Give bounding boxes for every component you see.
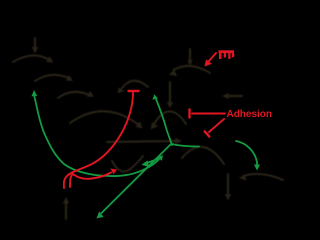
T-bar of R3 [188, 110, 190, 118]
wire A6 arch left-head [122, 81, 148, 88]
arrowhead of R2 [111, 168, 118, 174]
wire A6b arch [154, 111, 187, 125]
arrowhead of A15 [63, 197, 70, 204]
wire A10 vertical down arrow [227, 174, 229, 195]
wire G6 green right arc [236, 141, 257, 166]
arrowhead of G1 [31, 90, 37, 96]
arrowhead of G4 [152, 94, 157, 100]
wire A15 vertical up arrow [65, 203, 67, 220]
wire G3 short green arrow to U-curve [147, 159, 158, 163]
wire A9 swoop [182, 147, 224, 164]
wire A7 horizontal arrow [107, 141, 176, 142]
arrowhead of G3 [142, 160, 150, 167]
wire R4 red inhibition diagonal [209, 119, 224, 132]
arrowhead of G2 [97, 212, 104, 219]
wire A13 arch [174, 66, 211, 73]
arrowhead of A4 [87, 91, 94, 97]
wire R2 red arrow to U-curve [70, 173, 111, 188]
T-bar of R4 [205, 131, 210, 136]
wire G5 green branch right [172, 144, 199, 147]
arrowhead of A6b [151, 122, 159, 129]
svg-text:Adhesion: Adhesion [227, 108, 273, 120]
arrowhead of A14 [239, 174, 247, 181]
wire R3 red inhibition line from Adhesion [192, 113, 225, 115]
wire A16 vertical down arrow mid [169, 82, 171, 104]
wire A3 arch [35, 75, 70, 81]
arrowhead of A11 [222, 93, 229, 100]
wire A1 vertical down arrow shaft [34, 38, 36, 49]
wire A2 arch [13, 55, 50, 62]
wire G1 big green curve [34, 95, 161, 176]
arrowhead of A13 [169, 70, 178, 76]
arrowhead of A7 [175, 138, 182, 144]
wire G4 green main stem [156, 99, 172, 145]
arrowhead of G1 end [157, 155, 163, 161]
wire A8 U-curve [112, 156, 143, 171]
arrowhead of A5 [135, 121, 142, 128]
wire G2 long green diagonal [101, 145, 171, 215]
arrowhead of A10 [225, 194, 232, 201]
arrowhead of A16 [167, 102, 174, 108]
arrowhead of A12 [187, 60, 193, 66]
red label WIF [219, 50, 235, 59]
arrowhead of G6 [254, 165, 260, 171]
wire A14 shallow arch [244, 174, 284, 180]
arrowhead of A3 [66, 75, 73, 81]
wire R5 red arrow from WIF [209, 53, 217, 62]
arrowhead of A1 [32, 47, 39, 54]
arrowhead of A6 [117, 87, 124, 93]
wire A4 arch [58, 92, 90, 98]
wire A12 vertical line [189, 49, 191, 62]
arrowhead of A2 [46, 56, 53, 63]
T-bar of R1 [129, 90, 139, 92]
wire A11 left arrow [228, 95, 242, 97]
wire A5 long arc [70, 111, 138, 124]
wire R1 red inhibition curve [64, 93, 133, 188]
arrowhead of R5 [205, 59, 213, 66]
